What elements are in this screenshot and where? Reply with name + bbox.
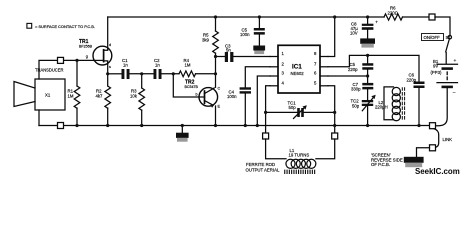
wire: TR2 emitter to ground rail xyxy=(215,106,217,126)
svg-text:BC547B: BC547B xyxy=(185,85,199,89)
screen contact (reverse side) xyxy=(404,157,424,167)
svg-text:220p: 220p xyxy=(348,67,358,72)
wire: IC pin8 to top rail xyxy=(328,17,335,57)
resistor R4 1M xyxy=(179,58,216,77)
svg-text:50p: 50p xyxy=(289,105,297,110)
svg-text:5n: 5n xyxy=(226,47,231,52)
svg-text:(PP3): (PP3) xyxy=(431,70,443,75)
resistor R6 220ohm xyxy=(384,6,429,20)
battery B1 9V PP3 xyxy=(431,59,458,96)
resistor R2 4k7 xyxy=(96,86,111,126)
svg-text:g: g xyxy=(86,55,88,59)
ground contact (bottom rail) xyxy=(176,126,189,142)
wire: IC pin5 down to aerial xyxy=(328,86,335,133)
switch S1 xyxy=(422,34,452,64)
wire: TR1 source down xyxy=(107,63,109,86)
wire: IC pin7 jog up to HT line xyxy=(328,55,419,81)
svg-text:NE602: NE602 xyxy=(291,71,305,76)
legend: surface contact key xyxy=(27,23,95,29)
svg-text:9V: 9V xyxy=(433,64,438,69)
wire: base tap down to TR2 base xyxy=(173,74,199,97)
surface contact square (battery return) xyxy=(430,123,436,129)
svg-text:330p: 330p xyxy=(351,87,361,92)
wire: transducer bottom to ground rail xyxy=(38,110,40,126)
svg-text:+: + xyxy=(454,59,457,64)
wire: top supply rail xyxy=(108,16,384,18)
transistor TR2 BC547B xyxy=(185,80,221,109)
svg-text:ON/OFF: ON/OFF xyxy=(424,35,441,40)
ground contact (C5) xyxy=(253,46,265,55)
svg-text:1M: 1M xyxy=(68,93,74,98)
wire: bottom ground rail xyxy=(39,125,429,127)
inductor L2 220uH xyxy=(375,87,405,121)
surface contact square (bottom rail) xyxy=(58,123,64,129)
wire: source node to C1 xyxy=(108,73,121,75)
wire: TR2 collector up xyxy=(215,57,217,88)
capacitor C1 1n xyxy=(122,58,130,79)
svg-text:BF256B: BF256B xyxy=(79,45,93,49)
transistor TR1 (JFET) xyxy=(79,39,112,69)
svg-text:1n: 1n xyxy=(123,63,128,68)
svg-text:10k: 10k xyxy=(130,93,138,98)
svg-text:X1: X1 xyxy=(45,93,51,98)
svg-text:19 TURNS: 19 TURNS xyxy=(289,153,310,158)
svg-text:LINK: LINK xyxy=(443,137,453,142)
capacitor C2 1n xyxy=(154,58,162,79)
wire: C3 to IC pin1 xyxy=(233,56,270,58)
svg-text:b: b xyxy=(196,93,198,97)
wire: TR1 drain to top rail xyxy=(107,17,109,48)
capacitor C7 330p xyxy=(351,76,373,100)
ground contact (C8) xyxy=(360,38,375,47)
resistor R1 1M xyxy=(68,60,80,125)
svg-text:100n: 100n xyxy=(240,32,250,37)
svg-text:s: s xyxy=(109,65,111,69)
capacitor C5 100n (decoupling) xyxy=(240,17,265,46)
inductor L1 ferrite rod aerial, 19 turns xyxy=(246,139,335,173)
svg-text:FERRITE ROD: FERRITE ROD xyxy=(246,162,275,167)
capacitor C3 5n xyxy=(216,44,234,63)
wire: link jog xyxy=(434,129,439,148)
svg-text:−: − xyxy=(453,90,456,96)
svg-text:= SURFACE CONTACT TO P.C.B.: = SURFACE CONTACT TO P.C.B. xyxy=(35,24,95,29)
svg-text:1M: 1M xyxy=(185,63,191,68)
svg-text:S1: S1 xyxy=(446,35,452,40)
wire: C1 to C2 xyxy=(130,73,154,75)
capacitor C5 220p xyxy=(348,55,373,76)
surface contact square (aerial right) xyxy=(332,133,338,139)
capacitor C6 220p xyxy=(407,73,425,126)
transducer X1 xyxy=(14,68,65,111)
surface contact square (supply) xyxy=(429,14,435,20)
svg-text:4k7: 4k7 xyxy=(96,93,104,98)
svg-text:10V: 10V xyxy=(350,31,358,36)
wire: IC pin6 to divider node xyxy=(328,75,368,77)
label: screen xyxy=(371,153,403,168)
resistor R3 10k xyxy=(130,74,145,126)
svg-text:220p: 220p xyxy=(407,77,417,82)
svg-text:220µH: 220µH xyxy=(375,105,388,110)
resistor R5 3k9 xyxy=(202,17,218,57)
svg-text:220Ω: 220Ω xyxy=(388,10,398,15)
surface contact square (gate wire) xyxy=(58,57,64,63)
svg-text:100n: 100n xyxy=(227,94,237,99)
wire: IC pin4 down to aerial xyxy=(266,86,270,133)
wire: IC pin3 to ground rail xyxy=(257,76,270,126)
trimmer TC2 50p xyxy=(351,95,376,126)
svg-text:d: d xyxy=(109,43,111,47)
wire: square to switch xyxy=(435,17,450,35)
capacitor C8 47u electrolytic xyxy=(350,17,378,38)
surface contact square (link lower) xyxy=(430,145,436,151)
wire: transducer top to gate xyxy=(39,60,93,79)
wire: to screen contact xyxy=(417,148,430,157)
capacitor C4 100n xyxy=(227,67,270,126)
svg-text:+: + xyxy=(375,20,378,25)
IC1 NE602 xyxy=(270,45,328,93)
svg-text:IC1: IC1 xyxy=(292,64,302,71)
svg-text:OUTPUT AERIAL: OUTPUT AERIAL xyxy=(246,168,280,173)
wire: battery to link square xyxy=(436,88,448,126)
svg-text:1n: 1n xyxy=(155,63,160,68)
ferrite rod marks xyxy=(285,170,315,173)
svg-text:SeekIC.com: SeekIC.com xyxy=(415,167,460,176)
trimmer TC1 50p xyxy=(266,100,335,118)
svg-text:OF P.C.B.: OF P.C.B. xyxy=(371,162,390,167)
svg-text:E: E xyxy=(218,105,221,109)
svg-text:C: C xyxy=(218,87,221,91)
surface contact square (aerial left) xyxy=(263,133,269,139)
wire: C2 to R4 xyxy=(162,73,180,75)
svg-text:50p: 50p xyxy=(352,103,360,108)
svg-text:3k9: 3k9 xyxy=(202,37,210,42)
